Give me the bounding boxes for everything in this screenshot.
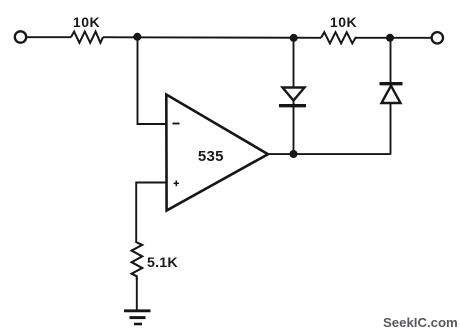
node A (junction at inverting input tap) [133, 33, 141, 41]
watermark SeekIC.com [383, 315, 458, 330]
value label 10K (R2) [330, 14, 357, 30]
node B (junction at diode D1) [290, 34, 298, 42]
wire R2 to output terminal [358, 37, 432, 39]
svg-text:10K: 10K [330, 14, 357, 30]
diode D1 (anode up, cathode down) [279, 88, 306, 106]
output terminal [432, 32, 443, 43]
value label 5.1K [147, 255, 178, 271]
ground [124, 311, 151, 324]
node D (output junction) [290, 150, 298, 158]
diode D2 (cathode up, anode down) [380, 84, 403, 103]
resistor R3 (5.1K vertical) [132, 242, 143, 280]
wire op-amp output to diode D2 branch [268, 153, 391, 155]
svg-text:10K: 10K [73, 14, 100, 30]
wire non-inverting input to R3 [136, 183, 166, 244]
svg-text:5.1K: 5.1K [147, 255, 178, 271]
op-amp U1 [166, 95, 268, 211]
wire node C down to diode D2 [390, 38, 392, 84]
wire diode D2 to output line [390, 103, 392, 155]
wire input to R1 [27, 36, 72, 38]
resistor R2 [321, 32, 358, 43]
svg-text:SeekIC.com: SeekIC.com [383, 315, 458, 330]
wire diode D1 to output line [293, 106, 295, 154]
svg-text:535: 535 [198, 148, 224, 165]
part number label 535 [198, 148, 224, 165]
wire R3 to ground [136, 280, 138, 311]
node C (junction at diode D2) [386, 34, 394, 42]
wire node B down to diode D1 [293, 38, 295, 87]
non-inverting input symbol (+) [174, 180, 179, 186]
input terminal [15, 31, 26, 42]
value label 10K (R1) [73, 14, 100, 30]
wire R1 to R2 (top rail) [103, 36, 321, 39]
resistor R1 [71, 32, 103, 43]
wire node A down to inverting input [138, 37, 167, 124]
inverting input symbol (-) [173, 123, 180, 125]
